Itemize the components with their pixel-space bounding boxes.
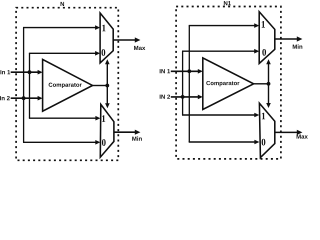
input label In 1 bbox=[0, 70, 10, 74]
arrow into top right mux input 0 bbox=[254, 49, 259, 54]
wire In1 to bottom mux input 1 bbox=[29, 117, 97, 119]
wire Max output bbox=[113, 39, 136, 41]
arrow into top right mux input 1 bbox=[254, 23, 259, 28]
wire In1 riser bbox=[29, 53, 31, 118]
wire IN1 to top mux input 1 bbox=[189, 25, 256, 27]
wire select down to bottom right mux bbox=[268, 84, 270, 104]
junction dot select right bbox=[267, 82, 271, 86]
wire In 2 stub bbox=[11, 97, 39, 99]
wire In2 to bottom mux input 0 bbox=[23, 141, 97, 143]
junction dot In2 bbox=[22, 96, 26, 100]
dashed block border N bbox=[16, 8, 118, 161]
arrow Min output bbox=[135, 130, 141, 135]
label Min right bbox=[293, 44, 303, 48]
arrow into bottom right mux input 0 bbox=[254, 140, 259, 145]
junction dot select bbox=[105, 84, 109, 88]
wire In2 to top mux input 1 bbox=[23, 27, 97, 29]
pin label 0 bbox=[262, 49, 266, 56]
wire IN2 to bottom mux input 1 bbox=[182, 114, 256, 116]
wire comparator output bbox=[93, 85, 108, 87]
arrow select into top right mux bbox=[266, 59, 271, 64]
dashed block border N1 bbox=[176, 7, 281, 159]
arrow select into top mux bbox=[105, 59, 110, 64]
arrow IN1 into comparator bbox=[198, 69, 203, 74]
arrow select into bottom right mux bbox=[266, 103, 271, 108]
pin label 0 bbox=[262, 139, 266, 146]
wire select down to bottom mux bbox=[106, 86, 108, 105]
arrow In1 into comparator bbox=[38, 70, 43, 75]
wire In 1 stub bbox=[11, 71, 39, 73]
wire IN 2 stub bbox=[171, 96, 199, 98]
arrow IN2 into comparator bbox=[198, 95, 203, 100]
wire IN1 to bottom mux input 0 bbox=[189, 141, 256, 143]
wire comparator output right bbox=[254, 83, 269, 85]
wire Min output right bbox=[275, 38, 298, 40]
label Min bbox=[132, 136, 142, 140]
wire In2 riser bbox=[23, 28, 25, 143]
pin label 1 bbox=[262, 113, 265, 120]
wire IN 1 stub bbox=[171, 70, 199, 72]
mux U5 top right bbox=[259, 12, 275, 64]
junction dot IN1 bbox=[187, 69, 191, 73]
pin label 1 bbox=[102, 25, 105, 32]
arrow into top mux input 0 bbox=[95, 51, 100, 56]
input label IN 2 bbox=[160, 95, 170, 99]
mux U6 bottom right bbox=[259, 103, 274, 157]
arrow into bottom right mux input 1 bbox=[254, 113, 259, 118]
wire IN2 riser bbox=[182, 51, 184, 115]
label Comparator right bbox=[206, 81, 239, 86]
input label IN 1 bbox=[160, 69, 170, 73]
arrow select into bottom mux bbox=[105, 103, 110, 108]
junction dot In1 bbox=[28, 70, 32, 74]
pin label 1 bbox=[262, 21, 265, 28]
arrow Min output right bbox=[297, 36, 303, 41]
pin label 0 bbox=[102, 139, 106, 146]
wire In1 to top mux input 0 bbox=[29, 52, 97, 54]
arrow into top mux input 1 bbox=[95, 25, 100, 30]
label Comparator left bbox=[49, 83, 82, 88]
label Max right bbox=[297, 134, 308, 138]
wire IN1 riser bbox=[188, 26, 190, 142]
wire select up to top right mux bbox=[268, 63, 270, 83]
wire IN2 to top mux input 0 bbox=[182, 50, 256, 52]
wire Min output bbox=[114, 131, 136, 133]
wire Max output right bbox=[275, 131, 298, 133]
arrow into bottom mux input 0 bbox=[95, 140, 100, 145]
wire select up to top mux bbox=[106, 63, 108, 85]
arrow In2 into comparator bbox=[38, 96, 43, 101]
pin label 0 bbox=[102, 49, 106, 56]
label Max bbox=[134, 46, 145, 50]
label N1 bbox=[224, 1, 231, 5]
comparator U1 bbox=[43, 59, 93, 111]
input label In 2 bbox=[0, 96, 10, 100]
junction dot IN2 bbox=[181, 95, 185, 99]
arrow Max output right bbox=[297, 130, 303, 135]
pin label 1 bbox=[102, 115, 105, 122]
mux U3 bottom left bbox=[100, 104, 114, 157]
comparator U4 bbox=[203, 58, 254, 110]
arrow Max output bbox=[135, 37, 141, 42]
label N bbox=[61, 2, 65, 6]
mux U2 top left bbox=[100, 13, 113, 63]
arrow into bottom mux input 1 bbox=[95, 116, 100, 121]
